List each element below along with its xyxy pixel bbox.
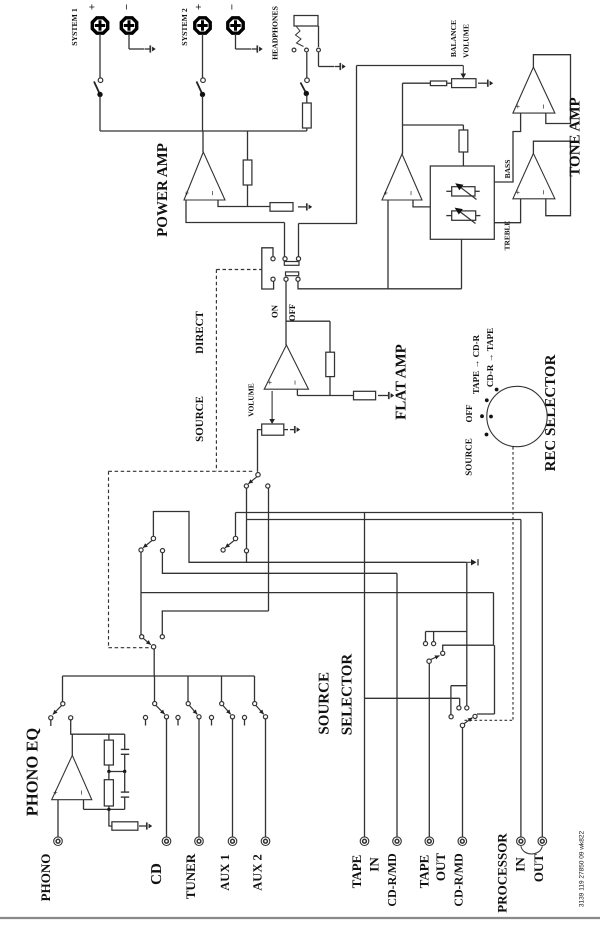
svg-text:+: + (266, 380, 275, 385)
svg-text:SOURCE: SOURCE (316, 672, 332, 735)
svg-text:SYSTEM 1: SYSTEM 1 (70, 8, 79, 46)
svg-text:PROCESSOR: PROCESSOR (495, 833, 510, 913)
svg-text:TONE AMP: TONE AMP (568, 97, 584, 176)
svg-text:AUX 1: AUX 1 (218, 854, 232, 890)
svg-text:IN: IN (366, 857, 381, 872)
svg-text:CD-R → TAPE: CD-R → TAPE (485, 328, 495, 387)
svg-text:AUX 2: AUX 2 (251, 854, 265, 890)
svg-text:OFF: OFF (464, 404, 474, 422)
svg-text:+: + (382, 190, 391, 195)
svg-text:DIRECT: DIRECT (194, 310, 206, 353)
svg-text:VOLUME: VOLUME (462, 24, 471, 58)
svg-text:CD-R/MD: CD-R/MD (385, 853, 399, 907)
svg-text:CD: CD (149, 863, 165, 885)
svg-text:FLAT AMP: FLAT AMP (394, 344, 410, 420)
svg-text:PHONO: PHONO (38, 854, 53, 902)
svg-text:−: − (406, 190, 416, 195)
svg-text:+: + (51, 790, 60, 795)
svg-text:OUT: OUT (433, 853, 448, 882)
svg-text:SOURCE: SOURCE (194, 396, 206, 442)
svg-text:−: − (290, 380, 300, 385)
svg-text:OFF: OFF (287, 304, 297, 321)
svg-text:−: − (539, 190, 549, 195)
svg-text:POWER AMP: POWER AMP (155, 143, 171, 237)
svg-text:−: − (539, 104, 549, 109)
svg-text:TAPE → CD-R: TAPE → CD-R (471, 334, 481, 394)
svg-text:ON: ON (270, 304, 280, 318)
svg-text:BALANCE: BALANCE (449, 20, 458, 57)
svg-text:BASS: BASS (503, 160, 512, 179)
svg-text:+: + (193, 4, 205, 10)
svg-text:SYSTEM 2: SYSTEM 2 (180, 8, 189, 46)
svg-text:3139 119 27850 09 wk822: 3139 119 27850 09 wk822 (579, 831, 586, 908)
svg-text:TUNER: TUNER (183, 853, 198, 899)
svg-text:TREBLE: TREBLE (503, 221, 512, 251)
svg-text:+: + (183, 190, 192, 195)
svg-text:OUT: OUT (531, 854, 546, 883)
svg-text:−: − (227, 4, 239, 10)
svg-text:+: + (87, 4, 99, 10)
svg-text:PHONO EQ: PHONO EQ (23, 728, 42, 817)
svg-text:−: − (77, 790, 87, 795)
svg-text:+: + (514, 190, 523, 195)
svg-text:IN: IN (512, 857, 527, 872)
svg-text:VOLUME: VOLUME (247, 383, 256, 417)
svg-text:−: − (121, 4, 133, 10)
svg-text:SELECTOR: SELECTOR (340, 654, 356, 736)
svg-text:TAPE: TAPE (349, 855, 364, 889)
svg-text:TAPE: TAPE (416, 855, 431, 889)
svg-text:+: + (514, 104, 523, 109)
svg-text:CD-R/MD: CD-R/MD (451, 853, 465, 907)
svg-text:HEADPHONES: HEADPHONES (271, 6, 280, 60)
svg-text:−: − (208, 190, 218, 195)
svg-text:SOURCE: SOURCE (464, 438, 474, 476)
